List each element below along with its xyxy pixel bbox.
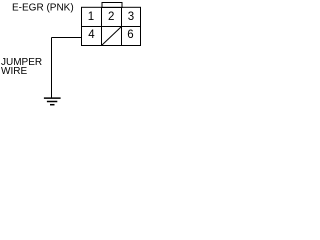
svg-text:4: 4 [88, 29, 95, 41]
connector column divider 2/5 vs 3/6 [121, 7, 123, 45]
wire vertical segment to ground [51, 38, 53, 98]
svg-text:2: 2 [108, 11, 114, 23]
connector row divider [82, 26, 141, 28]
ground bar 3 [50, 104, 55, 106]
svg-text:E-EGR (PNK): E-EGR (PNK) [12, 2, 74, 13]
svg-text:6: 6 [127, 29, 133, 41]
connector keying tab [102, 3, 122, 8]
pin 5 blocked cavity diagonal [102, 27, 122, 46]
svg-text:WIRE: WIRE [1, 66, 27, 77]
ground bar 2 [47, 101, 57, 103]
connector column divider 1/4 vs 2/5 [101, 7, 103, 45]
svg-text:3: 3 [128, 11, 134, 23]
ground bar 1 [44, 97, 61, 99]
wire horizontal segment to pin 4 [52, 37, 82, 39]
connector outline [82, 7, 141, 45]
svg-text:1: 1 [88, 11, 94, 23]
